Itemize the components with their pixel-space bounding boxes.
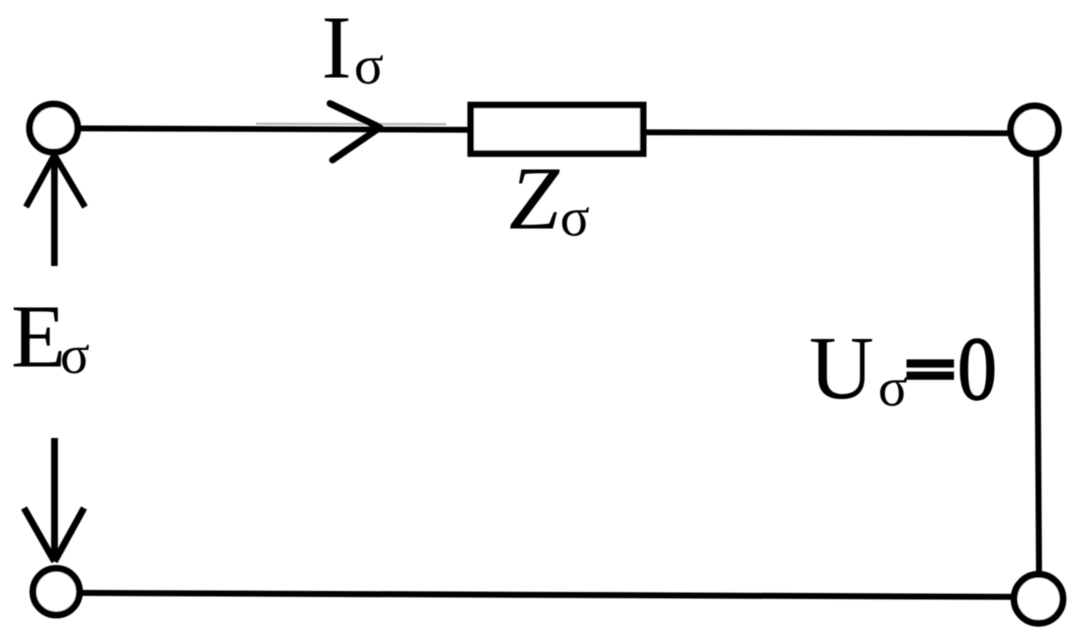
svg-text:I: I [322, 0, 352, 97]
EMF source Eσ down arrow [24, 438, 84, 562]
label Uσ=0 [809, 319, 997, 419]
wire top-right segment (resistor to node B) [644, 132, 1035, 133]
wire bottom segment [56, 593, 1038, 597]
label Iσ [322, 0, 384, 97]
svg-text:σ: σ [354, 35, 384, 96]
wire top-left segment (node A to resistor) [54, 124, 470, 130]
resistor Zσ [471, 105, 644, 154]
svg-text:E: E [11, 288, 66, 387]
svg-text:U: U [809, 319, 874, 418]
EMF source Eσ up arrow [26, 155, 85, 266]
terminal node bottom-left [33, 568, 80, 615]
terminal node top-right [1011, 106, 1059, 154]
current arrow Iσ [330, 104, 380, 161]
svg-text:σ: σ [560, 187, 590, 248]
svg-text:Z: Z [509, 150, 560, 249]
svg-text:σ: σ [60, 324, 90, 385]
terminal node top-left [29, 104, 77, 152]
terminal node bottom-right [1014, 574, 1063, 623]
label Eσ [11, 288, 90, 387]
svg-text:0: 0 [958, 320, 997, 419]
wire right vertical segment [1036, 131, 1039, 598]
label Zσ [509, 150, 590, 249]
svg-text:σ: σ [878, 357, 908, 418]
